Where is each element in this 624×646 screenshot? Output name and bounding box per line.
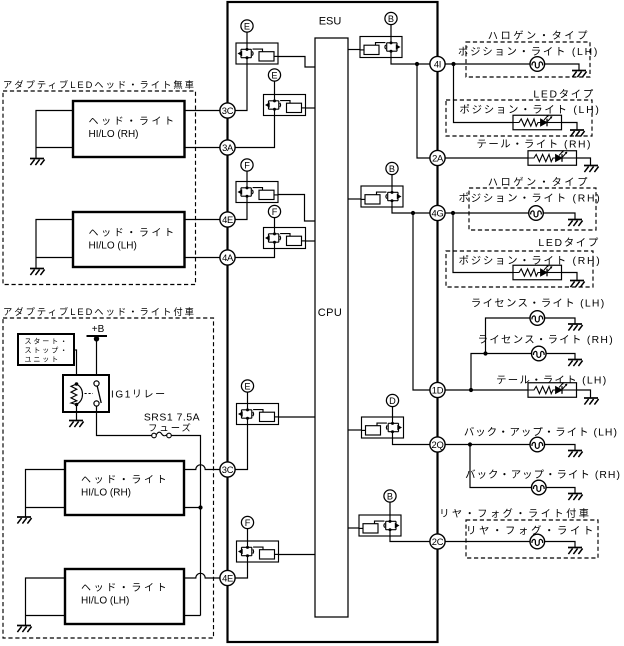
junction +B node [94,336,99,341]
connector pin 4I (ESU pin 4I) [430,56,445,71]
wire 2Q branch to backup RH [470,445,532,488]
wire CPU to U10 driver [348,527,359,529]
relay coil [71,384,83,405]
wire E to U5 drain [247,392,249,404]
connector pin 2A (ESU pin 2A) [430,150,445,165]
node E (supply E for U5) [241,380,253,392]
wire start-stop unit to relay coil [74,350,77,384]
wire pin 2A to tail light RH [445,157,528,159]
junction node 4I feed to 2A [415,62,419,66]
wire B to U7 drain [390,24,392,36]
wire U2 source to pin 3A [235,116,275,148]
wire pin 2Q to backup LH [445,444,530,446]
svg-text:HI/LO (LH): HI/LO (LH) [89,241,137,252]
wire U6 source to pin 4E lower [235,562,248,578]
LED lamp unit tail light LH (LED) (resistor + LED) [528,382,577,397]
junction node 1D branch [469,388,473,392]
svg-text:SRS1 7.5A: SRS1 7.5A [144,413,200,424]
svg-text:4G: 4G [432,207,444,218]
svg-text:ポジション・ライト (LH): ポジション・ライト (LH) [459,104,600,116]
svg-text:リヤ・フォグ・ライト: リヤ・フォグ・ライト [466,524,596,537]
svg-text:HI/LO (LH): HI/LO (LH) [81,596,129,607]
svg-text:ESU: ESU [319,16,342,28]
ground rear fog ground [568,548,583,555]
lamp back-up light LH [530,437,545,452]
svg-text:ヘッド・ライト: ヘッド・ライト [89,227,177,239]
node F (supply F for U4) [268,205,280,217]
svg-text:HI/LO (RH): HI/LO (RH) [89,129,139,140]
svg-text:ハロゲン・タイプ: ハロゲン・タイプ [488,177,590,189]
node B (supply B for U7) [385,12,397,24]
wire U7 source to pin 4I [391,58,431,65]
connector pin 4G (ESU pin 4G) [430,205,445,220]
wire +B terminal bar [87,335,108,337]
ESU control module box [228,2,438,642]
ground position lamp LH ground [572,71,587,78]
ground LED position LH ground [570,130,585,137]
junction license branch node [483,351,487,355]
connector pin 2C (ESU pin 2C) [430,534,445,549]
junction node 2Q branch [468,442,472,446]
junction supply bus node at RH headlight [198,505,202,509]
output driver block U2 (3A high) (MOSFET + gate driver) [264,95,306,116]
wire fuse to headlight supply bus [171,436,200,616]
svg-text:ハロゲン・タイプ: ハロゲン・タイプ [488,30,590,42]
wire adaptive RH supply stub [184,507,201,509]
wire U5 driver to CPU [279,416,316,418]
junction node 4I branch [451,62,455,66]
headlight unit HI/LO (LH) [73,212,185,267]
wire F to U3 drain [246,171,248,182]
output driver block U6 (4E low) (MOSFET + gate driver) [237,541,279,562]
svg-text:ヘッド・ライト: ヘッド・ライト [81,474,169,486]
svg-text:ライセンス・ライト (RH): ライセンス・ライト (RH) [478,334,614,346]
node E (supply E for U2) [268,69,280,81]
svg-text:CPU: CPU [318,307,342,319]
lamp back-up light RH [532,480,547,495]
wire LED position RH to ground [562,273,578,281]
dashed option box: halogen position light RH option [469,188,596,230]
wire pin 2C to rear fog light [444,541,530,543]
svg-text:リヤ・フォグ・ライト付車: リヤ・フォグ・ライト付車 [439,507,591,520]
svg-text:HI/LO (RH): HI/LO (RH) [81,488,131,499]
wire headlight RH ground side [36,111,73,159]
wire relay contact to fuse [97,406,152,435]
wire adaptive LH supply stub [184,615,201,617]
svg-text:4I: 4I [434,58,441,69]
svg-text:4A: 4A [222,252,234,263]
start-stop unit box [18,334,74,365]
wire D to U9 drain [392,406,394,417]
svg-text:バック・アップ・ライト (LH): バック・アップ・ライト (LH) [464,427,618,439]
node D (supply D for U9) [386,394,398,406]
svg-text:3C: 3C [222,105,234,116]
wire U1 gate-driver to CPU [278,57,315,68]
wire pin 4G to position lamp RH [445,212,529,214]
adaptive headlight unit HI/LO (LH) [65,569,184,624]
svg-text:+B: +B [92,324,105,335]
wire pin 4I to position lamp LH [445,63,530,65]
ground license LH ground [568,324,583,331]
svg-text:アダプティブLEDヘッド・ライト付車: アダプティブLEDヘッド・ライト付車 [3,306,196,317]
svg-text:3A: 3A [222,142,234,153]
ground adaptive LH ground [17,626,32,633]
wire 4G branch to LED position RH [453,213,513,273]
svg-text:B: B [389,164,395,174]
wire U10 source to pin 2C [390,536,431,542]
svg-text:D: D [389,396,396,406]
ground headlight LH ground [30,269,45,276]
svg-text:F: F [245,518,251,528]
dashed option box: rear fog light option [466,520,598,558]
svg-text:ユニット: ユニット [25,357,61,364]
lamp rear fog light [530,534,545,549]
output driver block U7 (4I) (MOSFET + gate driver) [360,37,402,58]
wire U3 source to pin 4E [235,203,247,220]
wire license LH feed [486,318,531,354]
wire F to U6 drain [247,528,249,541]
svg-text:バック・アップ・ライト (RH): バック・アップ・ライト (RH) [465,469,621,481]
wire license LH to ground [545,318,575,324]
svg-text:1D: 1D [432,384,444,395]
CPU block [315,38,348,617]
node E (supply E for U1) [241,20,253,32]
relay contact [85,381,102,406]
lamp license light RH [532,346,547,361]
output driver block U8 (4G) (MOSFET + gate driver) [361,186,403,207]
headlight unit HI/LO (RH) [73,101,185,157]
junction relay coil bottom [75,403,79,407]
wire 4I branch to LED position LH [454,64,514,123]
wire F to U4 drain [274,217,276,227]
svg-text:ストップ・: ストップ・ [25,347,70,355]
dashed option box: LED position light RH option [446,251,593,287]
svg-text:2Q: 2Q [432,439,444,450]
wire LED position LH to ground [562,123,578,131]
node F (supply F for U6) [241,516,253,528]
svg-text:E: E [244,381,250,391]
wire adaptive RH signal to 3C with hop [184,465,220,470]
svg-text:2C: 2C [432,536,444,547]
wire U1 source to pin 3C [235,64,247,111]
wire B to U10 drain [389,502,391,515]
dashed option box: halogen position light LH option [466,42,590,77]
dashed option box: with adaptive LED headlight group [3,318,214,638]
ground relay coil ground [69,421,84,428]
wire headlight LH to pin 4A [185,257,221,259]
ground position lamp RH ground [568,220,583,227]
svg-text:F: F [244,160,250,170]
junction relay coil top [75,382,79,386]
wire CPU to U7 driver [348,49,360,51]
fuse SRS1 7.5A [152,432,172,438]
ground headlight RH ground [30,159,45,166]
junction node 4G branch [451,211,455,215]
wire E to U2 drain [274,81,276,95]
svg-text:4E: 4E [222,572,233,583]
svg-text:4E: 4E [222,214,233,225]
LED lamp unit tail light RH (LED) (resistor + LED) [528,150,577,165]
wire B to U8 drain [391,174,393,186]
svg-text:B: B [388,14,394,24]
dashed option box: without adaptive LED headlight group [3,91,196,285]
wire +B to relay contact [96,336,98,381]
ground backup LH ground [568,451,583,458]
output driver block U3 (4E high) (MOSFET + gate driver) [236,182,278,203]
connector pin 1D (ESU pin 1D) [430,382,445,397]
lamp license light LH [530,311,545,326]
svg-text:LEDタイプ: LEDタイプ [538,237,600,249]
output driver block U10 (2C) (MOSFET + gate driver) [359,515,401,536]
node B (supply B for U10) [384,490,396,502]
wire headlight RH to pin 3C [185,110,221,112]
connector pin 4A (ESU pin 4A) [220,250,235,265]
lamp position light RH (halogen) [529,206,544,221]
wire U5 source to pin 3C lower [235,425,248,470]
svg-text:ヘッド・ライト: ヘッド・ライト [89,116,177,128]
LED lamp unit position light RH (LED) (resistor + LED) [513,265,562,280]
node B (supply B for U8) [386,162,398,174]
ground tail light RH ground [584,166,599,173]
wire E to U1 drain [246,32,248,43]
connector pin 3C (ESU pin 3C lower) [220,462,235,477]
wire backup LH to ground [545,445,575,451]
wire U6 driver to CPU [279,554,316,556]
wire backup RH to ground [546,488,575,494]
svg-text:ライセンス・ライト (LH): ライセンス・ライト (LH) [471,298,606,310]
wire U4 source to pin 4A [235,249,275,258]
svg-text:ポジション・ライト (LH): ポジション・ライト (LH) [458,46,599,58]
wire relay coil to ground [76,405,78,421]
wire U9 source to pin 2Q [393,438,431,445]
connector pin 3C (ESU pin 3C upper) [220,103,235,118]
wire adaptive LH ground side [26,578,66,626]
connector pin 4E (ESU pin 4E lower) [220,570,235,585]
wire rear fog to ground [545,542,575,548]
output driver block U4 (4A high) (MOSFET + gate driver) [264,228,306,249]
output driver block U1 (3C high) (MOSFET + gate driver) [236,43,278,64]
wire headlight LH to pin 4E [185,219,221,221]
wire 4I branch to pin 2A [417,64,431,158]
svg-text:スタート・: スタート・ [25,337,70,346]
wire license RH feed [471,354,532,391]
lamp position light LH (halogen) [530,57,545,72]
svg-text:E: E [271,70,277,80]
wire CPU to U9 driver [348,429,362,431]
ground adaptive RH ground [17,517,32,524]
svg-text:ヘッド・ライト: ヘッド・ライト [81,582,169,594]
wire tail light LH to ground [577,390,591,398]
svg-text:LEDタイプ: LEDタイプ [533,89,595,101]
relay IG1 [63,375,109,412]
ground LED position RH ground [570,281,585,288]
connector pin 3A (ESU pin 3A) [220,140,235,155]
wire headlight RH to pin 3A [185,147,221,149]
ground license RH ground [568,360,583,367]
wire 4G branch to pin 1D [413,213,431,390]
wire U3 driver to CPU [278,195,315,222]
connector pin 4E (ESU pin 4E upper) [220,212,235,227]
svg-text:フューズ: フューズ [148,422,193,433]
svg-text:IG1リレー: IG1リレー [111,390,167,401]
wire position lamp LH to ground [545,64,579,71]
svg-text:アダプティブLEDヘッド・ライト無車: アダプティブLEDヘッド・ライト無車 [3,79,196,90]
ground tail light LH ground [584,398,599,405]
connector pin 2Q (ESU pin 2Q) [430,437,445,452]
wire position lamp RH to ground [543,213,575,220]
node F (supply F for U3) [241,159,253,171]
wire adaptive LH signal to 4E with hop [184,573,220,578]
wire pin 1D to tail light LH [445,389,528,391]
svg-text:テール・ライト (RH): テール・ライト (RH) [476,139,592,151]
svg-text:3C: 3C [222,464,234,475]
wire license RH to ground [546,354,575,360]
output driver block U5 (3C low) (MOSFET + gate driver) [237,404,279,425]
wire tail light RH to ground [577,158,591,166]
LED lamp unit position light LH (LED) (resistor + LED) [513,115,562,130]
svg-text:B: B [387,491,393,501]
wire adaptive RH ground side [26,470,66,518]
wire CPU to U8 driver [348,198,361,200]
svg-text:ポジション・ライト (RH): ポジション・ライト (RH) [459,193,602,205]
dashed option box: LED position light LH option [446,100,592,136]
svg-text:2A: 2A [432,152,444,163]
svg-text:E: E [244,21,250,31]
wire U8 source to pin 4G [392,207,431,213]
wire U2 driver to CPU [306,107,316,109]
junction node 4G feed to 1D [411,211,415,215]
wire U4 driver to CPU [306,240,316,242]
adaptive headlight unit HI/LO (RH) [65,461,184,515]
output driver block U9 (2Q) (MOSFET + gate driver) [362,417,404,438]
wire headlight LH ground side [36,220,73,269]
svg-text:F: F [272,207,278,217]
ground backup RH ground [568,494,583,501]
